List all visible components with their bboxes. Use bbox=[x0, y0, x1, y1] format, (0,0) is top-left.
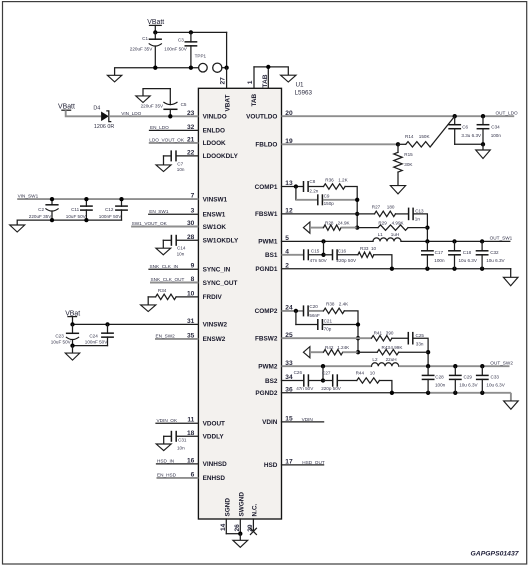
svg-text:LDO_VOUT_OK: LDO_VOUT_OK bbox=[149, 138, 185, 143]
capacitor C18 10u 6.3V bbox=[448, 241, 461, 268]
capacitor C23 10uF 50V bbox=[66, 324, 79, 345]
svg-text:15: 15 bbox=[285, 416, 293, 423]
capacitor C13 1n bbox=[408, 208, 410, 221]
wire R36 to bus bbox=[345, 187, 357, 228]
svg-text:VINHSD: VINHSD bbox=[203, 461, 228, 468]
svg-text:R27: R27 bbox=[372, 205, 381, 210]
svg-text:10n: 10n bbox=[177, 445, 185, 450]
no-connect X on pin 29 bbox=[250, 528, 256, 534]
svg-text:VDIN: VDIN bbox=[262, 419, 278, 426]
junction COMP2 bbox=[294, 309, 298, 313]
svg-text:2.2n: 2.2n bbox=[309, 189, 318, 194]
svg-text:N.C.: N.C. bbox=[252, 503, 259, 516]
wire EN_SW1 net (pin 3) bbox=[149, 213, 199, 215]
wire C21 left lead bbox=[296, 324, 318, 326]
svg-text:VINLDO: VINLDO bbox=[203, 114, 227, 121]
svg-text:C26: C26 bbox=[294, 370, 303, 375]
junction COMP1 bbox=[294, 184, 298, 188]
ground (C14) bbox=[156, 248, 171, 255]
svg-text:10: 10 bbox=[187, 290, 195, 297]
svg-text:SGND: SGND bbox=[224, 498, 231, 517]
junction R28/R29 bus bbox=[355, 225, 359, 229]
svg-text:C25: C25 bbox=[416, 333, 425, 338]
svg-text:R15: R15 bbox=[404, 152, 413, 157]
svg-text:C14: C14 bbox=[177, 246, 186, 251]
wire rail to ground bbox=[72, 346, 74, 354]
capacitor C21 70p bbox=[317, 319, 319, 330]
svg-text:1.24K: 1.24K bbox=[337, 345, 350, 350]
svg-text:1uH: 1uH bbox=[391, 232, 399, 237]
capacitor C31 10n on VDDLY (pin 18) bbox=[164, 431, 199, 442]
svg-text:SYNC_IN: SYNC_IN bbox=[203, 267, 231, 274]
svg-text:EN_HSD: EN_HSD bbox=[157, 473, 177, 478]
svg-text:4.99K: 4.99K bbox=[392, 221, 405, 226]
wire FBSW2 (pin 25) bbox=[282, 337, 372, 339]
svg-text:13: 13 bbox=[285, 180, 293, 187]
svg-text:TAB: TAB bbox=[262, 74, 269, 87]
wire COMP1 (pin 13) bbox=[282, 186, 304, 188]
test point TPP1 bbox=[199, 63, 208, 72]
svg-text:C33: C33 bbox=[491, 375, 500, 380]
wire bus to R29 bbox=[357, 227, 378, 229]
junction OUT_SW1 at C32 bbox=[480, 239, 484, 243]
svg-text:220uF 35V: 220uF 35V bbox=[130, 46, 153, 51]
svg-text:19: 19 bbox=[285, 138, 293, 145]
capacitor C1 220uF 35V (polarized) bbox=[149, 32, 162, 67]
capacitor C28 100n bbox=[422, 366, 435, 393]
junction C9 bus bbox=[355, 198, 359, 202]
svg-text:220p 50V: 220p 50V bbox=[336, 258, 357, 263]
node VBat flag bbox=[65, 310, 80, 317]
junction FBSW2 bus bbox=[356, 336, 360, 340]
wire pin1 to TAB to ground bbox=[254, 67, 288, 75]
ground (C7) bbox=[156, 165, 171, 172]
junction OUT_SW2 at C28 bbox=[426, 364, 430, 368]
wire C20 to R38 bbox=[309, 310, 324, 312]
svg-text:.: . bbox=[170, 290, 171, 295]
svg-text:LDOOKDLY: LDOOKDLY bbox=[203, 153, 239, 160]
capacitor C14 10n on SW1OKDLY (pin 28) bbox=[163, 235, 198, 246]
junction PGND2 at C29 bbox=[453, 391, 457, 395]
wire R14 diagonal to OUT_LDO bbox=[432, 116, 454, 144]
svg-text:C21: C21 bbox=[324, 318, 333, 323]
resistor R36 1.2K bbox=[324, 184, 346, 189]
test point (second) bbox=[213, 63, 222, 72]
pin 26 SWGND stub bbox=[239, 519, 241, 534]
port/ground (R42 left) bbox=[303, 347, 310, 358]
junction rail at C2 bbox=[50, 218, 54, 222]
svg-text:10uF 50V: 10uF 50V bbox=[66, 214, 87, 219]
wire C16 to R33 bbox=[338, 254, 358, 256]
wire C7 to ground bbox=[163, 156, 165, 165]
wire R42 to bus bbox=[343, 351, 358, 353]
svg-text:16: 16 bbox=[187, 457, 195, 464]
svg-text:VINSW2: VINSW2 bbox=[203, 322, 228, 329]
node VBatt (top power flag) bbox=[147, 19, 164, 26]
svg-text:26: 26 bbox=[234, 524, 241, 532]
svg-text:47n 50V: 47n 50V bbox=[296, 386, 314, 391]
wire VDIN net (pin 15) bbox=[282, 421, 324, 423]
svg-text:PGND1: PGND1 bbox=[255, 266, 277, 273]
junction C11 top bbox=[84, 197, 88, 201]
resistor R42 1.24K bbox=[324, 350, 343, 355]
wire junction to C16 bbox=[324, 254, 333, 256]
pin 27 VBAT stub bbox=[226, 68, 228, 89]
svg-text:30: 30 bbox=[187, 220, 195, 227]
svg-text:TAB: TAB bbox=[251, 93, 258, 106]
wire PGND2 (pin 36) bbox=[282, 392, 429, 394]
capacitor C25 33n bbox=[407, 332, 409, 345]
wire C31 to ground bbox=[163, 436, 165, 444]
svg-text:GAPGPS01437: GAPGPS01437 bbox=[471, 551, 520, 558]
svg-text:R38: R38 bbox=[326, 302, 335, 307]
wire LDO_VOUT_OK net (pin 21) bbox=[149, 142, 199, 144]
wire C23/C24 ground rail bbox=[73, 345, 108, 347]
svg-text:220p 50V: 220p 50V bbox=[321, 386, 342, 391]
svg-text:C24: C24 bbox=[89, 334, 98, 339]
resistor R15 30K to ground bbox=[394, 144, 402, 185]
svg-text:LDOOK: LDOOK bbox=[203, 140, 226, 147]
svg-text:2.4K: 2.4K bbox=[339, 302, 349, 307]
svg-text:C31: C31 bbox=[178, 437, 187, 442]
svg-text:R36: R36 bbox=[325, 177, 334, 182]
junction C12 top bbox=[119, 197, 123, 201]
ground (R15) bbox=[390, 186, 405, 194]
svg-text:C16: C16 bbox=[338, 248, 347, 253]
wire PWM2 switch node (pin 33) bbox=[282, 365, 372, 367]
junction FBSW1 bus bbox=[355, 212, 359, 216]
ground (OUT_SW1) bbox=[503, 277, 518, 285]
wire VBAT rail drop bbox=[226, 32, 228, 67]
junction PGND1 at C17 bbox=[425, 267, 429, 271]
capacitor C32 10u 6.3V bbox=[476, 241, 489, 268]
junction BS1 node bbox=[321, 253, 325, 257]
wire to bottom ground bbox=[239, 534, 241, 541]
svg-text:SW1_VOUT_OK: SW1_VOUT_OK bbox=[132, 221, 168, 226]
svg-text:ENHSD: ENHSD bbox=[203, 475, 226, 482]
svg-text:ENSW1: ENSW1 bbox=[203, 212, 226, 219]
wire BS1 (pin 4) bbox=[282, 254, 304, 256]
wire junction to C27 bbox=[323, 380, 332, 382]
svg-text:10u 6.3V: 10u 6.3V bbox=[486, 383, 505, 388]
junction PGND2 at C28 bbox=[426, 391, 430, 395]
svg-text:OUT_SW2: OUT_SW2 bbox=[490, 360, 513, 365]
junction PGND2 at C33 bbox=[480, 391, 484, 395]
svg-text:7: 7 bbox=[191, 193, 195, 200]
wire port to R42 bbox=[310, 351, 324, 353]
wire bootstrap 2 vertical bbox=[322, 366, 324, 380]
svg-text:1n: 1n bbox=[415, 217, 421, 222]
resistor R29 4.99K bbox=[378, 225, 408, 230]
svg-text:VDIN_OK: VDIN_OK bbox=[157, 418, 178, 423]
svg-text:C5: C5 bbox=[181, 102, 187, 107]
wire bus to R43 bbox=[358, 351, 377, 353]
wire C9 branch down bbox=[295, 187, 297, 200]
svg-text:10n: 10n bbox=[177, 167, 185, 172]
wire C14 to ground bbox=[162, 240, 164, 248]
svg-text:FBLDO: FBLDO bbox=[255, 142, 277, 149]
capacitor C8 2.2n bbox=[303, 181, 305, 192]
wire R29 to junction bbox=[408, 227, 427, 229]
pin 1 TAB stub bbox=[253, 67, 255, 88]
wire VBatt flag to top rail bbox=[154, 25, 156, 32]
svg-text:D4: D4 bbox=[93, 105, 100, 111]
svg-text:20: 20 bbox=[285, 110, 293, 117]
wire port to R28 bbox=[310, 227, 324, 229]
wire L2 to OUT_SW2 bbox=[399, 365, 510, 367]
svg-text:HSD_OUT: HSD_OUT bbox=[302, 460, 325, 465]
resistor R43 4.99K bbox=[377, 350, 398, 355]
svg-text:R28: R28 bbox=[325, 221, 334, 226]
svg-text:17: 17 bbox=[285, 459, 293, 466]
wire HSD_OUT net (pin 17) bbox=[282, 464, 324, 466]
junction C23 top bbox=[70, 322, 74, 326]
junction C2 top bbox=[50, 197, 54, 201]
svg-text:R43: R43 bbox=[382, 345, 391, 350]
svg-text:SW1OKDLY: SW1OKDLY bbox=[203, 238, 239, 245]
svg-text:150p: 150p bbox=[324, 201, 335, 206]
resistor R38 2.4K bbox=[324, 308, 345, 313]
capacitor C20 56nF bbox=[303, 305, 305, 316]
pin 29 N.C. stub bbox=[252, 519, 254, 531]
junction C34 bottom bbox=[481, 142, 485, 146]
wire COMP2 (pin 24) bbox=[282, 310, 304, 312]
junction rail at C11 bbox=[84, 218, 88, 222]
resistor R33 10 bbox=[358, 252, 374, 257]
svg-text:SW1OK: SW1OK bbox=[203, 224, 227, 231]
wire SNK_CLK_IN net (pin 9) bbox=[149, 268, 198, 270]
wire C13 to corner down bbox=[414, 214, 428, 242]
wire FBSW1 (pin 12) bbox=[282, 213, 375, 215]
node VBatt (LDO input flag) bbox=[58, 104, 75, 111]
svg-text:R41: R41 bbox=[374, 330, 383, 335]
svg-text:FBSW2: FBSW2 bbox=[255, 336, 278, 343]
wire SNK_CLK_OUT net (pin 8) bbox=[150, 282, 198, 284]
svg-text:6: 6 bbox=[191, 471, 195, 478]
junction OUT_LDO at C6 bbox=[453, 114, 457, 118]
svg-text:R33: R33 bbox=[360, 246, 369, 251]
svg-text:HSD_IN: HSD_IN bbox=[157, 459, 174, 464]
diode D4 bbox=[101, 111, 111, 122]
junction SGND/SWGND bbox=[238, 532, 242, 536]
svg-text:24.9K: 24.9K bbox=[338, 221, 351, 226]
resistor R44 10 bbox=[357, 378, 380, 383]
wire PWM1 switch node (pin 5) bbox=[282, 240, 374, 242]
svg-text:C28: C28 bbox=[435, 375, 444, 380]
junction FBLDO divider bbox=[396, 142, 400, 146]
svg-text:1.2K: 1.2K bbox=[338, 177, 348, 182]
wire SGND to SWGND bbox=[226, 533, 240, 535]
junction C21 bus bbox=[356, 322, 360, 326]
svg-text:10n: 10n bbox=[177, 251, 185, 256]
svg-text:100nF 50V: 100nF 50V bbox=[164, 46, 187, 51]
junction R29 end bbox=[425, 225, 429, 229]
capacitor C6 3.3u 6.3V bbox=[448, 116, 461, 144]
svg-text:100nF 50V: 100nF 50V bbox=[85, 340, 108, 345]
inductor L2 22uH bbox=[372, 363, 399, 366]
wire C15 to junction bbox=[309, 254, 324, 256]
svg-text:BS1: BS1 bbox=[265, 252, 278, 259]
wire EN_HSD net (pin 6) bbox=[157, 477, 199, 479]
svg-text:23: 23 bbox=[187, 110, 195, 117]
capacitor C27 220p 50V bbox=[332, 374, 334, 386]
svg-text:C12: C12 bbox=[105, 207, 114, 212]
wire to ground (LDO caps) bbox=[482, 144, 484, 150]
wire VIN_SW1 cap ground rail bbox=[17, 220, 121, 225]
ground (OUT_SW2) bbox=[504, 401, 519, 409]
svg-text:PGND2: PGND2 bbox=[255, 390, 277, 397]
svg-text:SNK_CLK_OUT: SNK_CLK_OUT bbox=[151, 277, 185, 282]
svg-text:10u 6.3V: 10u 6.3V bbox=[486, 258, 505, 263]
svg-text:22: 22 bbox=[187, 149, 195, 156]
wire test point to VBAT stub bbox=[222, 67, 227, 69]
svg-text:ENSW2: ENSW2 bbox=[203, 336, 226, 343]
svg-text:R14: R14 bbox=[405, 134, 414, 139]
junction OUT_SW2 at C29 bbox=[453, 364, 457, 368]
svg-text:27: 27 bbox=[220, 77, 227, 85]
svg-text:180: 180 bbox=[387, 205, 395, 210]
wire C21 to bus bbox=[323, 324, 358, 326]
inductor L1 1uH bbox=[373, 238, 401, 242]
svg-text:OUT_LDO: OUT_LDO bbox=[496, 110, 518, 115]
svg-text:VINSW1: VINSW1 bbox=[203, 196, 228, 203]
IC left pin names bbox=[203, 114, 239, 483]
svg-text:10u 6.3V: 10u 6.3V bbox=[459, 258, 478, 263]
svg-text:24: 24 bbox=[285, 305, 293, 312]
wire lower top rail to ground bbox=[115, 68, 199, 76]
junction lower rail at C3 bbox=[189, 66, 193, 70]
svg-text:C8: C8 bbox=[309, 179, 315, 184]
wire R27 to C13 bbox=[396, 213, 409, 215]
ground (LDO output caps) bbox=[476, 150, 491, 159]
svg-text:C3: C3 bbox=[178, 37, 184, 42]
capacitor C29 10u 6.3V bbox=[449, 366, 462, 393]
junction R43 end bbox=[426, 350, 430, 354]
wire BS2 (pin 34) bbox=[282, 380, 304, 382]
svg-text:70p: 70p bbox=[324, 327, 332, 332]
ground (VBat caps) bbox=[65, 353, 79, 360]
resistor R41 390 bbox=[372, 336, 392, 341]
svg-text:C17: C17 bbox=[435, 250, 444, 255]
svg-text:100n: 100n bbox=[434, 258, 445, 263]
svg-text:C9: C9 bbox=[324, 194, 330, 199]
junction bootstrap bbox=[321, 239, 325, 243]
svg-text:SWGND: SWGND bbox=[238, 492, 245, 517]
wire L1 to OUT_SW1 bbox=[401, 240, 510, 242]
svg-text:390: 390 bbox=[386, 330, 394, 335]
wire EN_SW2 net (pin 35) bbox=[155, 338, 198, 340]
svg-text:C6: C6 bbox=[462, 125, 468, 130]
capacitor C33 10u 6.3V bbox=[476, 366, 489, 393]
resistor R27 180 bbox=[375, 211, 396, 216]
capacitor C34 100n bbox=[477, 116, 490, 144]
svg-text:C15: C15 bbox=[311, 248, 320, 253]
ground (VIN_SW1 caps) bbox=[10, 225, 25, 232]
svg-text:COMP1: COMP1 bbox=[255, 184, 278, 191]
wire C9 left lead bbox=[296, 199, 318, 201]
junction rail at C23 bbox=[70, 343, 74, 347]
wire R43 to junction bbox=[399, 351, 428, 353]
svg-text:SYNC_OUT: SYNC_OUT bbox=[203, 280, 238, 287]
wire C27 to R44 bbox=[338, 380, 357, 382]
svg-text:100nF 50V: 100nF 50V bbox=[99, 214, 122, 219]
svg-text:220uF 35V: 220uF 35V bbox=[29, 214, 52, 219]
svg-text:C13: C13 bbox=[415, 208, 424, 213]
svg-text:2: 2 bbox=[285, 262, 289, 269]
svg-text:150K: 150K bbox=[419, 134, 431, 139]
wire R38 to bus bbox=[344, 311, 358, 352]
svg-text:R29: R29 bbox=[378, 221, 387, 226]
op-amp U1 L5963 IC body bbox=[198, 88, 281, 519]
junction PGND1 at C18 bbox=[452, 267, 456, 271]
svg-text:VIN_LDO: VIN_LDO bbox=[121, 111, 141, 116]
wire VBatt to D4 bbox=[66, 110, 101, 116]
svg-text:C23: C23 bbox=[55, 334, 64, 339]
capacitor C7 10n on LDOOKDLY (pin 22) bbox=[164, 150, 199, 161]
svg-text:C27: C27 bbox=[322, 371, 331, 376]
svg-text:32: 32 bbox=[187, 124, 195, 131]
wire SW1_VOUT_OK net (pin 30) bbox=[131, 226, 198, 228]
capacitor C5 220uF 35V (polarized) bbox=[163, 89, 177, 117]
svg-text:VIN_SW1: VIN_SW1 bbox=[18, 194, 39, 199]
svg-text:30K: 30K bbox=[404, 162, 413, 167]
wire C5 top to ground bbox=[143, 89, 170, 96]
svg-text:L5963: L5963 bbox=[295, 89, 313, 96]
svg-text:10u 6.3V: 10u 6.3V bbox=[459, 383, 478, 388]
svg-text:4.99K: 4.99K bbox=[390, 345, 403, 350]
junction top rail at C3 bbox=[189, 30, 193, 34]
junction C24 top bbox=[105, 322, 109, 326]
junction OUT_SW1 at C17 bbox=[425, 239, 429, 243]
wire C8 to R36 bbox=[309, 186, 324, 188]
svg-text:36: 36 bbox=[285, 387, 293, 394]
svg-text:C32: C32 bbox=[490, 250, 499, 255]
wire C21 branch down bbox=[295, 311, 297, 325]
svg-text:11: 11 bbox=[187, 417, 194, 424]
svg-text:BS2: BS2 bbox=[265, 378, 278, 385]
wire PGND1 to ground bbox=[510, 269, 512, 278]
svg-text:1206 0R: 1206 0R bbox=[94, 124, 114, 130]
wire R41 to C25 bbox=[392, 337, 408, 339]
wire FBLDO (pin 19) bbox=[282, 143, 399, 145]
svg-text:C1: C1 bbox=[142, 36, 148, 41]
junction OUT_LDO at C34 bbox=[481, 114, 485, 118]
svg-text:VDIN: VDIN bbox=[302, 417, 313, 422]
resistor R14 150K bbox=[398, 142, 432, 147]
wire VBat to pin 31 bbox=[73, 317, 199, 325]
svg-text:220uF 35V: 220uF 35V bbox=[141, 103, 164, 108]
wire D4 to pin 23 (net VIN_LDO) bbox=[109, 115, 199, 117]
svg-text:PWM2: PWM2 bbox=[258, 364, 278, 371]
svg-text:C29: C29 bbox=[464, 375, 473, 380]
pin 14 SGND stub bbox=[225, 519, 227, 534]
capacitor C2 220uF 35V (polarized) bbox=[45, 199, 58, 220]
ground (C31) bbox=[156, 444, 171, 451]
capacitor C9 150p bbox=[317, 194, 319, 205]
ground (top-left) bbox=[107, 75, 121, 82]
ground (bottom) bbox=[233, 540, 248, 547]
svg-text:28: 28 bbox=[187, 234, 195, 241]
capacitor C16 220p 50V bbox=[332, 249, 334, 260]
svg-text:C11: C11 bbox=[71, 207, 80, 212]
junction OUT_SW2 at C33 bbox=[480, 364, 484, 368]
svg-text:VBatt: VBatt bbox=[58, 104, 75, 111]
ground (C5) bbox=[136, 96, 150, 103]
junction bootstrap 2 bbox=[321, 364, 325, 368]
svg-text:R44: R44 bbox=[356, 371, 365, 376]
resistor R28 24.9K bbox=[324, 225, 342, 230]
junction PGND2 snubber bbox=[390, 391, 394, 395]
